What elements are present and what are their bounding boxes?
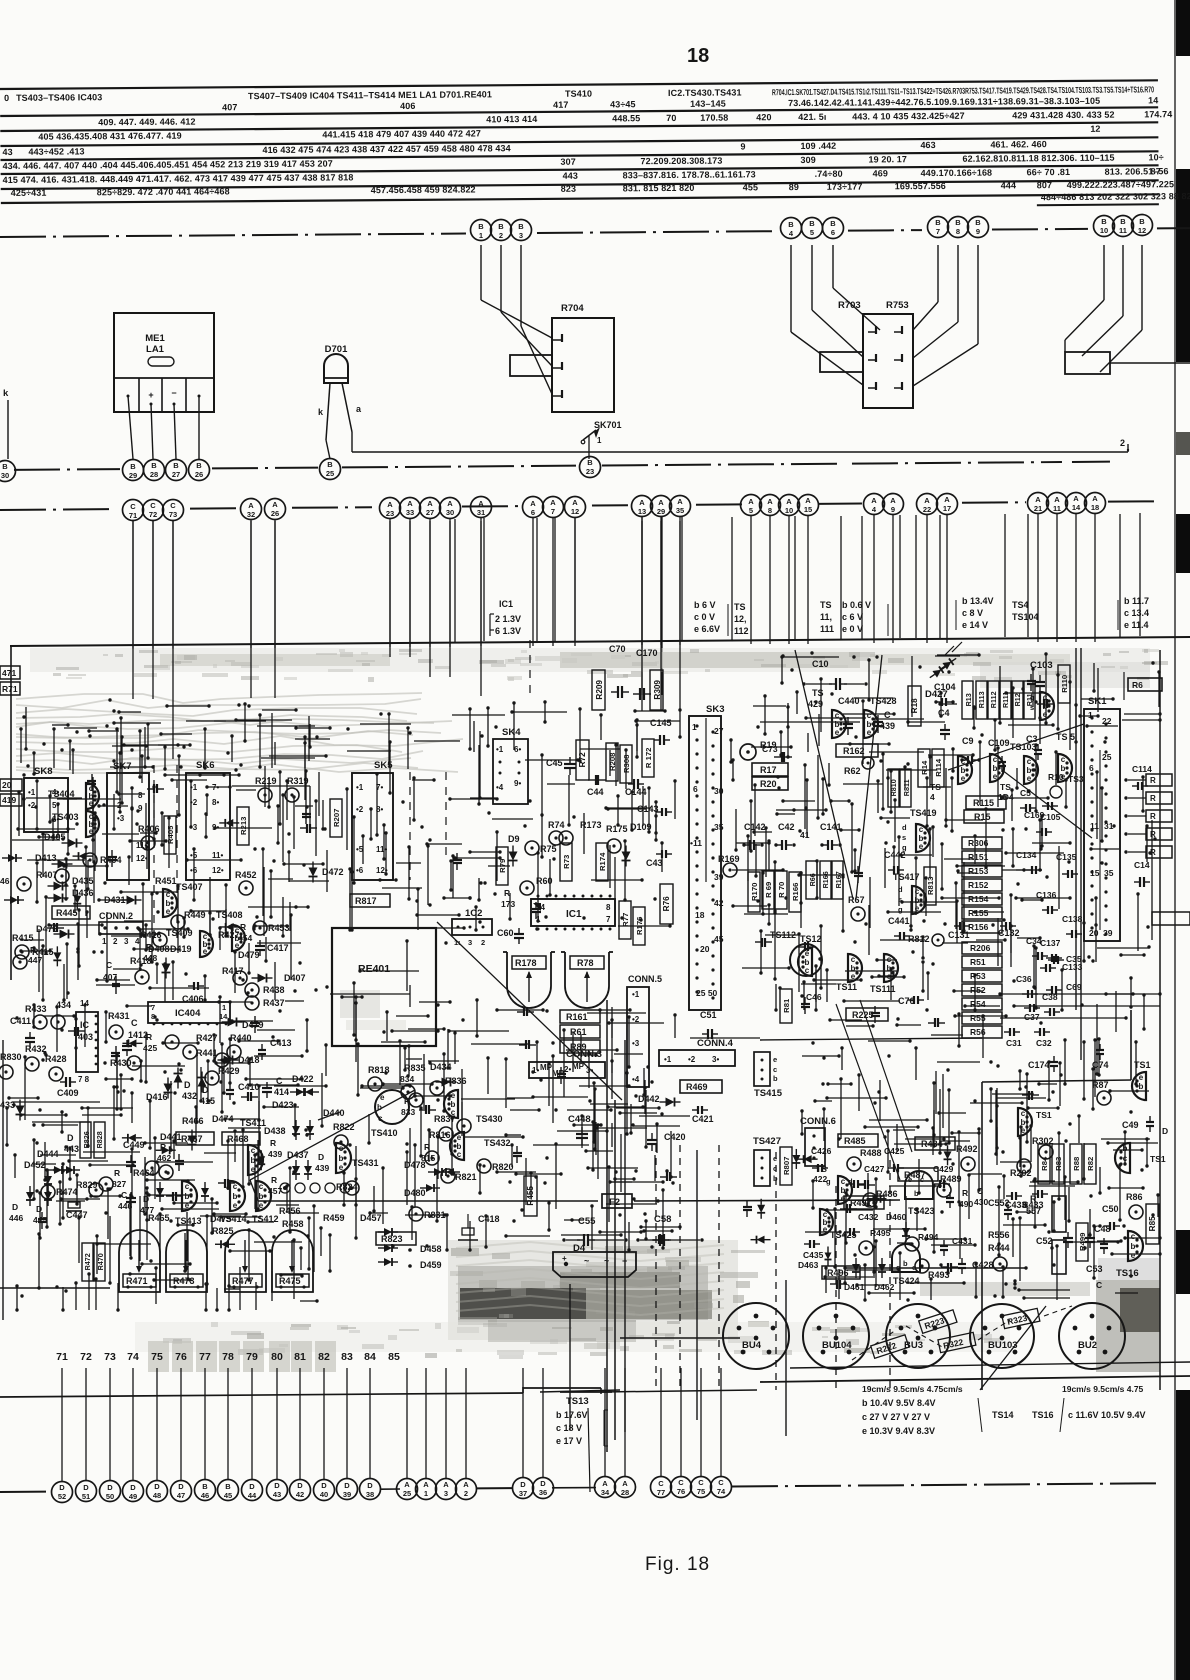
wire [521,245,552,394]
svg-text:R458: R458 [282,1219,304,1229]
wire diag9 [1002,770,1092,838]
diode mesh [53,819,265,1248]
svg-text:C411: C411 [10,1016,31,1026]
resistor R-aux left2 [820,352,863,372]
svg-text:6 1.3V: 6 1.3V [495,626,521,636]
resistor R488 [847,1148,882,1171]
resistor R83 [1052,1144,1064,1184]
svg-text:R835: R835 [404,1063,426,1073]
wire [346,1368,348,1478]
scan black bar [1176,0,1190,56]
svg-text:R753: R753 [886,300,909,311]
transistor TS-c [958,756,972,784]
svg-text:R6: R6 [1132,680,1143,690]
svg-text:3•: 3• [586,1066,593,1075]
wire [791,245,863,385]
svg-text:C: C [658,1479,664,1488]
svg-text:23: 23 [586,467,594,476]
resistor R14 [918,749,930,787]
connector A17 [937,494,958,515]
resistor R84 [1038,1144,1050,1184]
wire diag2 [250,1180,258,1201]
resistor R491 [844,1196,884,1209]
wire border2 [982,1080,1131,1082]
socket BU103 [970,1304,1034,1368]
scan black bar [1176,169,1190,362]
wire mesh [42,704,331,769]
note TS11 voltages [820,600,888,636]
diode D419 [162,944,192,979]
svg-text:e: e [908,1175,912,1184]
wire [132,1368,134,1480]
resistor R837 [434,1114,471,1133]
connector B8 [948,217,969,238]
svg-text:BU103: BU103 [988,1340,1018,1351]
svg-text:•1: •1 [496,745,504,754]
svg-text:11: 11 [1119,226,1127,235]
connector B25 [320,459,341,480]
wire [679,521,681,711]
svg-text:c 8 V: c 8 V [962,608,983,618]
resistor R469 [680,1080,722,1093]
diode D479 [238,950,260,960]
connector D48 [147,1481,168,1502]
resistor R438 [245,983,285,997]
wire mesh [5,1000,327,1311]
svg-text:TS12: TS12 [800,934,822,944]
svg-text:CONN.6: CONN.6 [800,1116,836,1127]
svg-text:10: 10 [785,506,793,515]
svg-text:19cm/s 9.5cm/s 4.75: 19cm/s 9.5cm/s 4.75 [1062,1384,1144,1394]
svg-text:b: b [1131,1242,1136,1251]
wire mesh [729,652,1048,1000]
capacitor C46 [806,992,822,1002]
svg-text:419: 419 [2,795,16,805]
resistor R169 [718,854,740,877]
svg-text:R83: R83 [1054,1157,1063,1171]
svg-text:SK3: SK3 [706,704,724,715]
node joint row [280,1183,350,1193]
svg-text:20: 20 [700,944,710,954]
connector B9 [968,217,989,238]
svg-text:R155: R155 [968,908,989,918]
svg-text:484÷486 813 202 322 302 323 8: 484÷486 813 202 322 302 323 88 82–84 86.… [1041,191,1190,202]
pcb photo band [30,648,1168,688]
capacitor C448 [568,1114,591,1145]
wire [542,1368,544,1477]
svg-text:26: 26 [195,470,203,479]
wire [794,516,796,639]
capacitor C131 [948,922,970,940]
svg-text:C10: C10 [812,659,829,669]
svg-text:R156: R156 [968,922,989,932]
svg-text:•4: •4 [632,1075,640,1084]
svg-text:c: c [1027,757,1032,766]
svg-text:R813: R813 [926,877,935,895]
connector CONN5 [627,974,662,1087]
wire [429,519,431,647]
resistor R431 [108,1011,130,1039]
svg-text:15: 15 [1090,868,1100,878]
svg-text:D: D [321,1481,327,1490]
IC IC1 [531,895,615,931]
rectifier D4 [553,1243,636,1277]
svg-text:B: B [1101,217,1107,226]
svg-text:R427: R427 [218,930,240,940]
transistor TS419 [902,808,937,852]
capacitor C60 [497,928,524,944]
wire mesh [468,706,501,901]
diode D405 [44,832,83,848]
svg-text:B: B [518,222,524,231]
resistor R152 [962,879,1002,891]
connector A18 [1085,493,1106,514]
svg-text:39: 39 [714,872,724,882]
svg-text:C50: C50 [1102,1204,1119,1214]
svg-text:72: 72 [80,1351,92,1363]
svg-text:174.74: 174.74 [1144,109,1172,119]
capacitor C109 [988,738,1010,772]
svg-text:TS430: TS430 [476,1114,503,1124]
svg-text:R455: R455 [526,1186,535,1206]
resistor R206 [962,942,1002,954]
resistor R209 [592,670,605,710]
svg-text:25: 25 [403,1489,411,1498]
svg-text:C46: C46 [806,992,822,1002]
wire [1139,513,1141,636]
wire [481,245,552,338]
diode D479b [222,1018,264,1031]
svg-text:D: D [184,1080,191,1090]
resistor R451 [155,876,177,886]
svg-text:B: B [788,220,794,229]
pad numbers 71-85 [56,1351,400,1363]
svg-text:C55: C55 [578,1216,596,1227]
connector B45 [218,1480,239,1501]
resistor R462 [157,1142,173,1179]
svg-text:C145: C145 [650,718,672,728]
svg-text:C76: C76 [898,996,915,1006]
IC IC2 [452,908,492,947]
resistor R557 [1026,1194,1066,1232]
wire dash-dot bus line 2 [14,462,1110,470]
resistor R12 [1012,681,1023,719]
svg-text:C417: C417 [267,943,289,953]
svg-text:IC1: IC1 [566,909,582,920]
wire [840,516,842,639]
connector D52 [52,1482,73,1503]
diode D463 [798,1247,832,1271]
svg-text:g: g [898,905,903,914]
svg-text:BU104: BU104 [822,1340,852,1351]
connector B7 [928,217,949,238]
svg-text:•2: •2 [28,801,36,810]
capacitor C70 [609,644,629,698]
wire dashed part4 [835,1186,837,1390]
resistor R10 [1048,772,1064,798]
resistor R447 [13,945,42,969]
transistor TS409 [166,928,213,957]
svg-text:C: C [698,1478,704,1487]
capacitor C145 [650,718,672,745]
svg-text:R74: R74 [548,820,565,830]
scan edge line [1174,0,1176,1680]
scan grey bar [1176,432,1190,455]
svg-text:20: 20 [1089,928,1099,938]
connector A25 [397,1479,418,1500]
svg-text:446: 446 [9,1213,23,1223]
wire diag5 [588,1408,590,1492]
svg-text:R812: R812 [908,934,930,944]
svg-text:457.456.458 459 824.822: 457.456.458 459 824.822 [371,184,476,195]
svg-text:72: 72 [149,510,157,519]
resistor R489 [937,1174,962,1197]
resistor R811 [900,769,911,807]
svg-text:D: D [367,1481,373,1490]
connector B26 [189,460,210,481]
svg-text:C44: C44 [587,787,604,797]
svg-text:6: 6 [531,508,535,517]
connector CONN3 [529,1049,605,1078]
svg-text:R: R [271,1175,277,1185]
svg-text:D413: D413 [35,853,57,863]
svg-text:e 11.4: e 11.4 [1124,620,1149,630]
resistor R13 [962,681,973,719]
wire h9b [843,1266,1027,1269]
svg-text:C: C [150,501,156,510]
IC IC403 [76,999,98,1084]
transistor TS413 [175,1181,202,1226]
note TS right voltages [1118,596,1149,630]
transistor TS425 [820,1209,857,1240]
wire [681,517,683,640]
svg-text:R12: R12 [1013,693,1022,706]
svg-text:R88: R88 [1072,1156,1081,1171]
capacitor C52 [1036,1232,1095,1248]
svg-text:471: 471 [2,668,16,678]
wire [1004,514,1006,637]
svg-text:C448: C448 [568,1114,591,1125]
resistor R404 [83,853,122,867]
resistor R486 [863,1189,898,1207]
svg-text:A: A [748,497,754,506]
wire bottom boundary b [601,1390,757,1392]
wire dash-dot bus line 1 [0,228,1190,237]
resistor R420 label [0,779,22,791]
svg-text:C48: C48 [1094,1224,1111,1234]
svg-text:b 17.6V: b 17.6V [556,1410,588,1420]
resistor R309 [650,670,663,710]
wire right vert2 [1151,820,1153,940]
resistor R453 [253,921,290,935]
svg-text:A: A [1054,495,1060,504]
svg-text:831. 815 821 820: 831. 815 821 820 [623,183,695,194]
svg-text:C138: C138 [1062,914,1083,924]
resistor R219 [255,776,277,802]
svg-text:2: 2 [481,938,485,947]
svg-text:D460: D460 [886,1212,907,1222]
resistor R820 [477,1159,514,1173]
svg-text:c: c [919,825,924,834]
svg-text:R152: R152 [968,880,989,890]
svg-text:e: e [339,1163,344,1172]
diode D422 [290,1074,319,1096]
connector SK1 [1084,696,1120,941]
svg-text:TS419: TS419 [910,808,937,818]
wire dashed sk7d [176,765,178,940]
connector A2 [456,1479,477,1500]
wire dashed part5 [889,1160,891,1390]
transistor TS111 [870,954,898,994]
resistor R66 [806,861,817,899]
resistor R114 [932,749,944,787]
connector B27 [166,460,187,481]
svg-text:39: 39 [343,1490,351,1499]
wire mesh [989,1060,1159,1243]
svg-text:R207: R207 [332,809,341,827]
svg-text:R: R [270,1138,276,1148]
svg-text:A: A [639,498,645,507]
svg-text:3: 3 [519,231,523,240]
connector CONN4 [659,1038,735,1066]
diode D423 [272,1100,294,1110]
svg-text:46: 46 [201,1491,209,1500]
svg-text:12: 12 [571,507,579,516]
svg-text:R166: R166 [821,871,830,888]
connector C75 [691,1477,712,1498]
resistor R54 [962,998,1002,1010]
svg-text:77: 77 [199,1351,211,1363]
svg-text:1: 1 [479,231,483,240]
resistor R323 [1002,1308,1040,1328]
diode D436 [48,888,94,903]
svg-text:R438: R438 [263,985,285,995]
caption Fig. 18 [645,1554,710,1575]
resistor R20 [752,777,788,790]
svg-text:e: e [457,1133,462,1142]
svg-text:173÷177: 173÷177 [827,182,863,192]
wire hr2 [1012,1004,1160,1007]
resistor R454 [238,922,252,943]
capacitor C45 [546,757,576,775]
svg-text:76: 76 [677,1487,685,1496]
resistor right-edge [1124,774,1172,786]
svg-text:D407: D407 [284,973,306,983]
resistor R405 [164,816,176,854]
label 2 [1120,438,1125,448]
scan black bar [1176,514,1190,573]
connector SK8 [24,766,68,832]
resistor R81 [780,989,792,1023]
svg-text:R: R [1150,794,1156,803]
svg-text:R112: R112 [989,691,998,708]
connector SK5 [352,760,393,880]
svg-text:37: 37 [519,1489,527,1498]
svg-text:8: 8 [606,903,611,912]
transistor TS430 [444,1090,503,1124]
svg-text:b: b [1139,1082,1144,1091]
resistor right-edge [1124,846,1172,858]
svg-text:C: C [130,502,136,511]
svg-text:R161: R161 [566,1012,588,1022]
wire diag7 [860,1000,912,1152]
svg-text:A: A [805,496,811,505]
svg-text:D: D [59,1483,65,1492]
svg-text:43÷45: 43÷45 [610,99,636,109]
wire [172,521,174,649]
svg-text:C425: C425 [884,1146,905,1156]
transistor TS431 [336,1143,379,1173]
svg-text:R71: R71 [2,684,18,694]
svg-text:c: c [1021,1109,1026,1118]
svg-text:14: 14 [1148,95,1158,105]
diode D422b [292,1120,314,1140]
svg-text:417: 417 [553,100,568,110]
svg-text:109 .442: 109 .442 [800,141,836,151]
svg-text:D442: D442 [638,1094,660,1104]
resistor R827 [99,1168,126,1191]
svg-text:R825: R825 [212,1226,234,1236]
diode D458 [408,1244,441,1254]
capacitor C105 [1040,802,1061,822]
resistor R223 [919,1310,957,1333]
svg-text:IC404: IC404 [175,1008,201,1019]
connector B11 [1113,216,1134,237]
resistor R484 [915,1137,955,1150]
svg-text:D: D [249,1482,255,1491]
wire [250,520,252,648]
wire [1037,514,1039,642]
svg-text:1: 1 [597,436,602,445]
svg-text:e: e [961,774,966,783]
svg-text:CONN.4: CONN.4 [697,1038,734,1049]
svg-text:b: b [233,1192,238,1201]
wire [1075,514,1077,642]
svg-text:R: R [114,1168,120,1178]
wire diag10 [980,1306,1046,1390]
svg-text:TS403: TS403 [52,812,79,822]
svg-text:TS111: TS111 [870,984,896,994]
svg-text:D: D [520,1480,526,1489]
wire dash-dot bus line 3 [0,501,1160,510]
svg-text:R86: R86 [1126,1192,1143,1202]
svg-text:R110: R110 [1060,675,1069,693]
svg-text:D423: D423 [272,1100,294,1110]
diode D457b [0,0,1,1]
resistor R490 [959,1188,973,1209]
svg-text:D9: D9 [508,834,520,844]
capacitor C446 [118,1190,136,1211]
socket BU104 [803,1303,869,1369]
svg-text:c: c [1061,755,1066,764]
resistor R493 [915,1259,950,1280]
svg-text:18: 18 [1091,503,1099,512]
svg-text:C418: C418 [478,1214,500,1224]
svg-text:C410: C410 [238,1082,260,1092]
capacitor C174 [1028,1056,1058,1072]
wire right vert [1159,650,1161,1390]
connector A8 [760,495,781,516]
svg-text:TS104: TS104 [1012,612,1039,622]
resistor R425 [143,1032,157,1053]
capacitor C143 [637,804,672,816]
connector D37 [513,1478,534,1499]
svg-text:1: 1 [424,1489,428,1498]
diode D477 [140,1182,164,1215]
wire [227,1368,229,1479]
svg-text:R: R [240,922,246,932]
resistor R824 [336,1181,359,1195]
